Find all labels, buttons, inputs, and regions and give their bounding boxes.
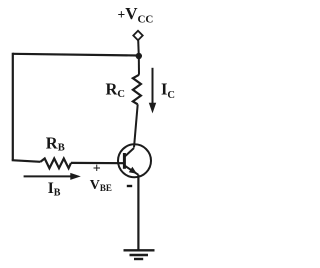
- ground: [124, 250, 155, 259]
- wire node to RC: [138, 56, 140, 75]
- arrow IB: [24, 173, 81, 180]
- wire emitter to ground: [137, 175, 139, 251]
- svg-text:IC: IC: [161, 80, 175, 102]
- node junction dot: [136, 53, 142, 59]
- svg-text:+: +: [93, 161, 101, 176]
- svg-text:+VCC: +VCC: [118, 4, 154, 26]
- Vcc terminal (diamond): [133, 31, 142, 40]
- wire top horizontal: [13, 54, 139, 56]
- svg-text:VBE: VBE: [90, 178, 112, 193]
- label - (VBE minus): [127, 185, 132, 187]
- transistor Q1: [118, 144, 151, 177]
- svg-text:RB: RB: [46, 133, 65, 153]
- svg-text:IB: IB: [48, 180, 61, 199]
- resistor RB: [41, 159, 72, 169]
- wire bottom-left to RB: [12, 160, 41, 162]
- wire RC to collector: [134, 104, 138, 147]
- wire Vcc terminal to node: [137, 40, 140, 56]
- wire left vertical: [12, 53, 14, 161]
- resistor RC: [133, 75, 141, 105]
- svg-text:RC: RC: [106, 79, 126, 100]
- wire RB to base: [71, 162, 125, 165]
- arrow IC: [149, 68, 156, 114]
